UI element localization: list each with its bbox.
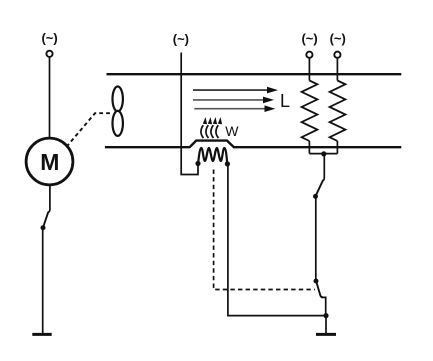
svg-text:(~): (~)	[41, 30, 57, 45]
wire middle supply to heater	[181, 53, 198, 175]
wire motor to switch S1	[48, 185, 50, 212]
wire terminal to motor	[49, 57, 51, 138]
terminal circle right A	[306, 52, 312, 58]
switch S3 blade	[316, 281, 323, 297]
junction dot heater right	[225, 161, 230, 166]
wire resistor B to bus	[336, 141, 338, 154]
wire terminal A to duct	[308, 58, 310, 81]
heat arrow 3	[211, 125, 214, 138]
ground left	[32, 333, 51, 336]
bus bar below duct	[309, 153, 337, 155]
airflow arrow 2	[193, 99, 264, 101]
svg-text:W: W	[225, 123, 239, 139]
svg-text:L: L	[280, 91, 290, 111]
wire resistor A to bus	[308, 141, 310, 154]
junction dot S2	[313, 194, 318, 199]
resistor heater A (zigzag)	[302, 81, 318, 142]
control link heater to S3 (dashed)	[214, 170, 315, 290]
duct bottom wall with heater bump	[105, 141, 401, 148]
ground right	[316, 333, 336, 336]
svg-text:M: M	[40, 149, 59, 175]
svg-text:(~): (~)	[301, 31, 317, 46]
wire switch to ground	[42, 228, 44, 334]
wire S2 to S3	[315, 197, 317, 281]
wire junction to ground	[325, 316, 327, 334]
airflow arrow 1	[193, 89, 268, 91]
svg-text:(~): (~)	[173, 31, 189, 46]
resistor heater B (zigzag)	[330, 81, 346, 142]
mechanical link motor to fan (dashed)	[67, 113, 112, 147]
wire bus to switch S2	[322, 154, 324, 181]
switch S2 blade	[316, 181, 323, 196]
junction dot S3 top	[314, 279, 319, 284]
motor M1 circle	[26, 138, 73, 185]
wire heater right to S3 bottom	[228, 164, 326, 316]
junction dot bus	[321, 151, 326, 156]
heater element coil	[198, 148, 227, 164]
switch S1 blade	[43, 212, 48, 227]
heat arrow 1	[201, 125, 204, 138]
wire terminal B to duct	[336, 58, 338, 81]
airflow arrow 3	[194, 108, 265, 110]
fan blade upper	[113, 87, 123, 112]
fan blade lower	[113, 111, 123, 136]
heat arrow 2	[206, 125, 209, 138]
svg-text:(~): (~)	[330, 31, 346, 46]
junction dot bottom	[323, 313, 328, 318]
terminal circle right B	[334, 52, 340, 58]
junction dot heater left	[195, 161, 200, 166]
duct top wall	[107, 73, 402, 75]
heat arrow 4	[216, 125, 219, 138]
terminal circle left supply	[46, 51, 52, 57]
junction dot S1	[41, 225, 46, 230]
wire S3 to ground	[322, 297, 326, 315]
